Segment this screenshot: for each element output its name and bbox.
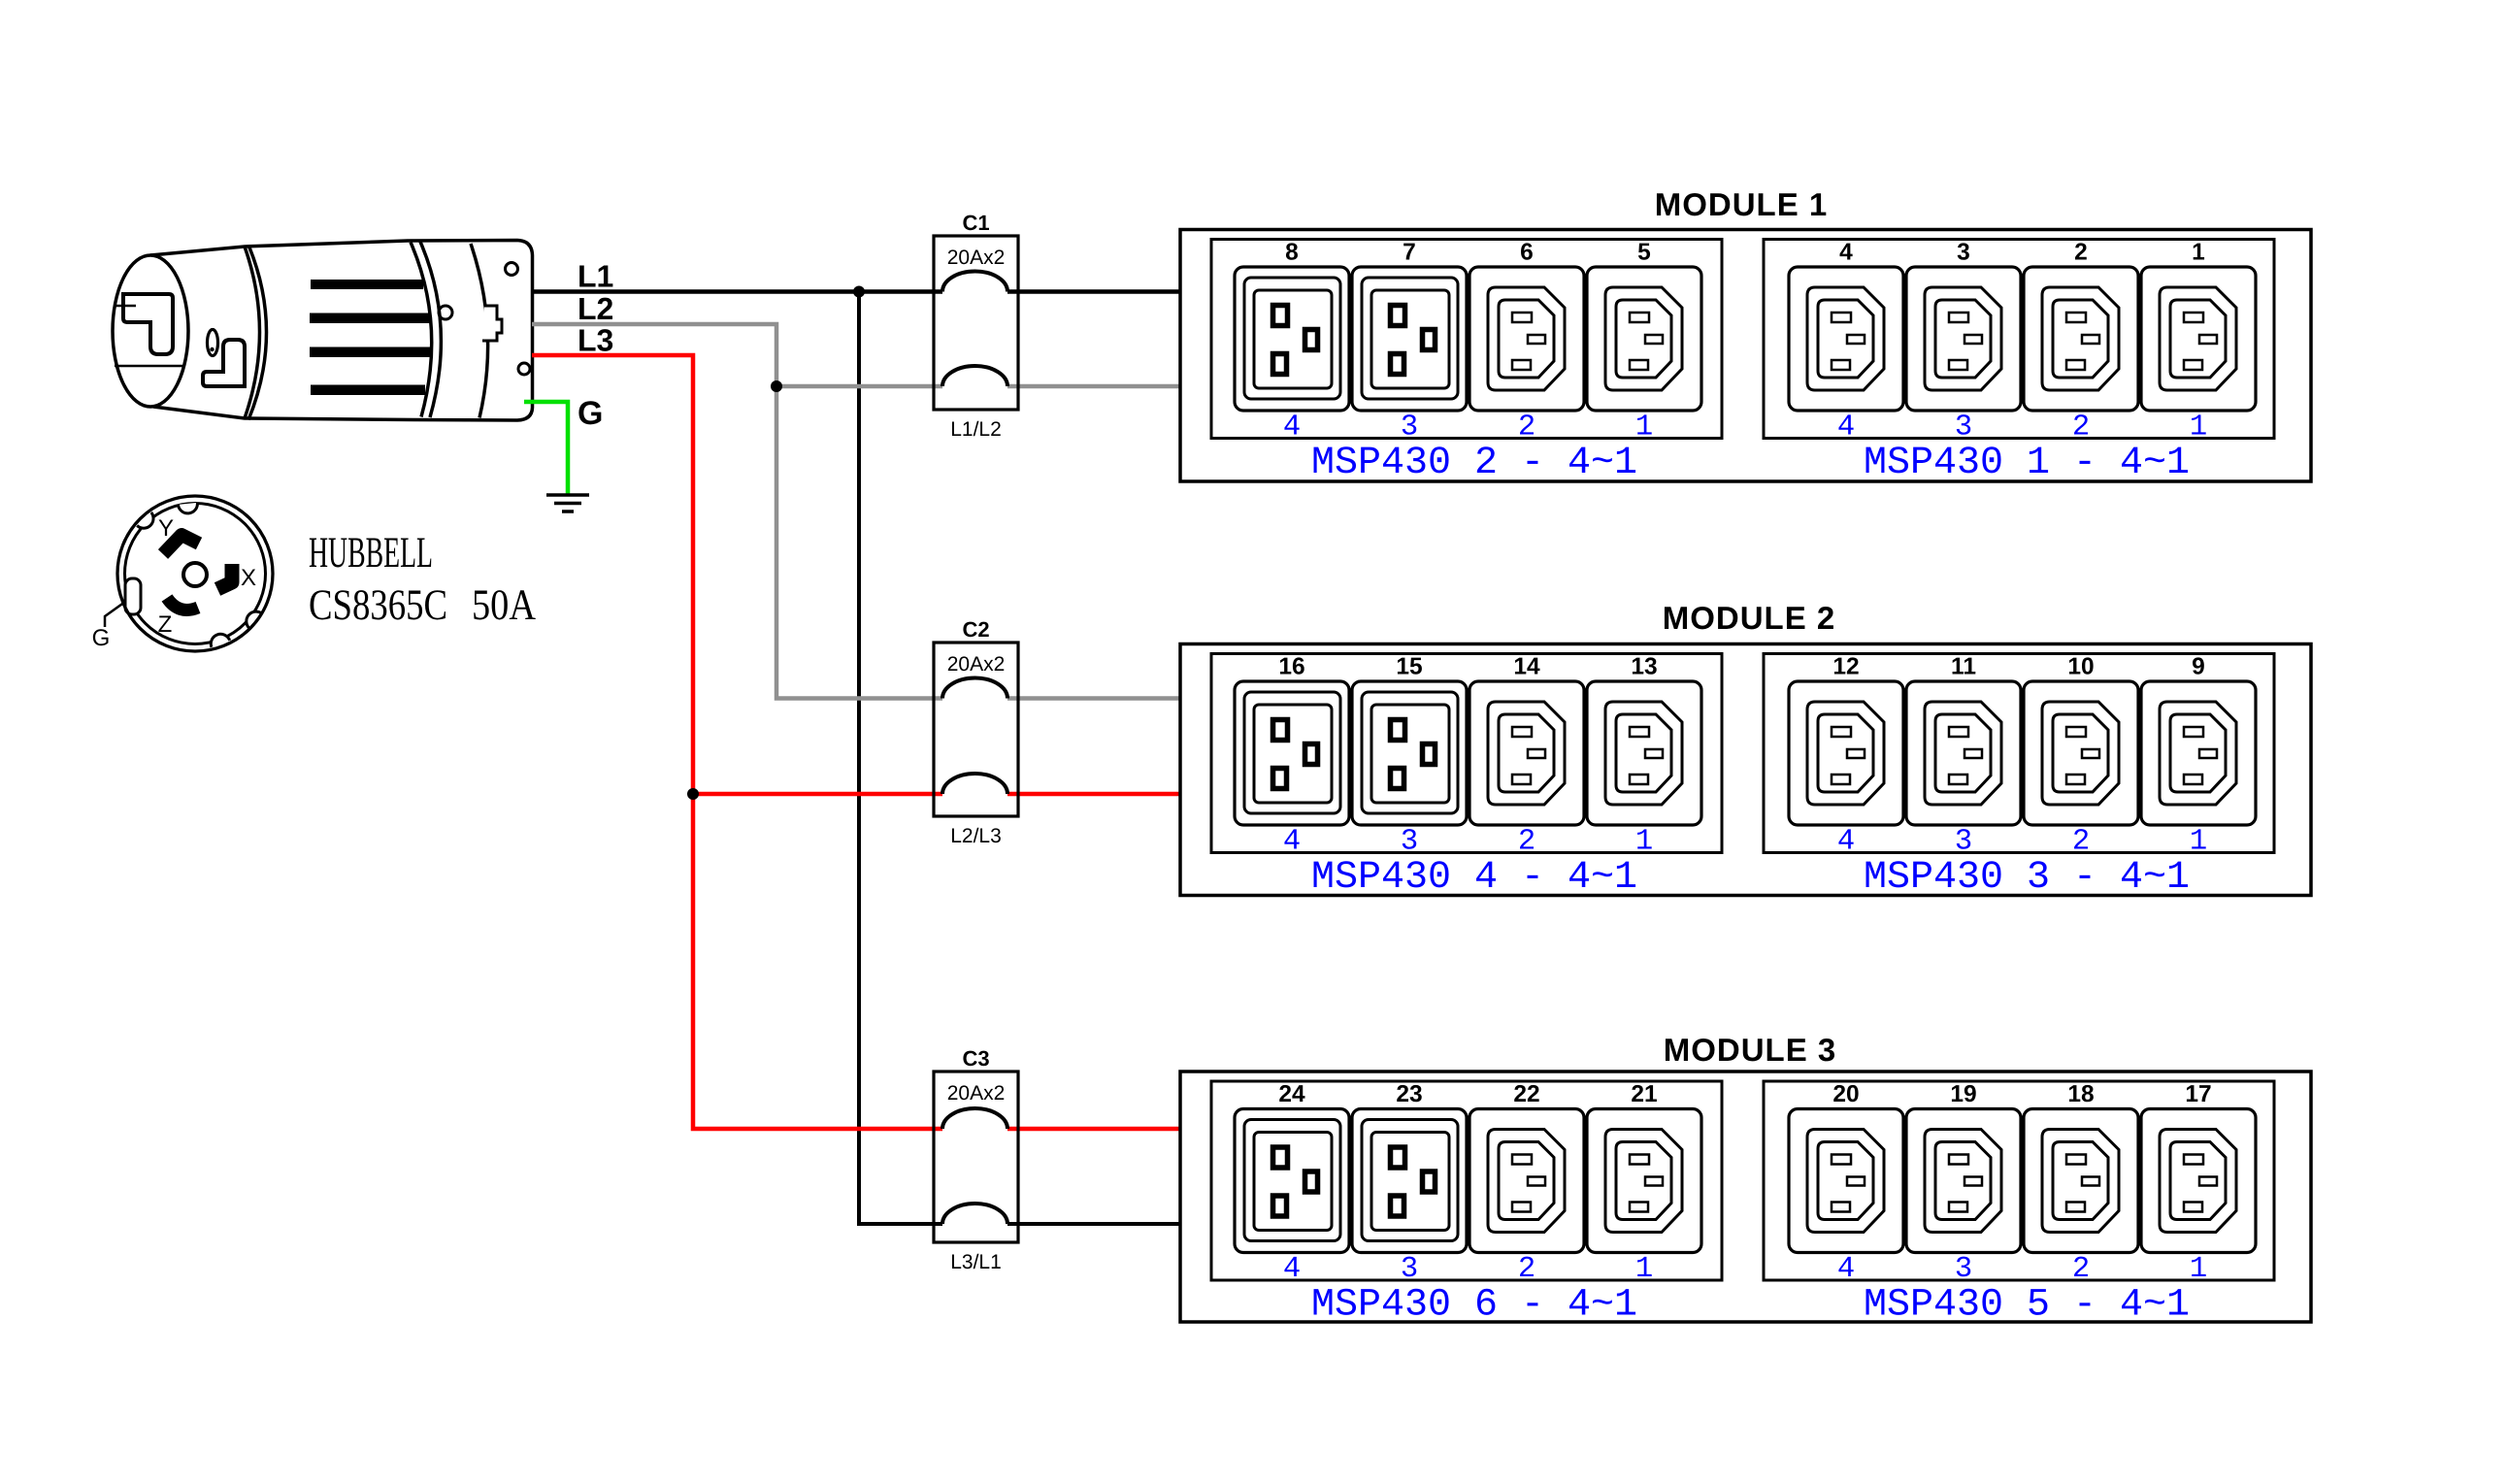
svg-text:4: 4 xyxy=(1283,412,1301,445)
svg-text:23: 23 xyxy=(1396,1081,1422,1107)
svg-text:20: 20 xyxy=(1832,1081,1859,1107)
wire L1 breaker C1 to module 1 xyxy=(1007,289,1180,294)
casing bump top-left xyxy=(137,512,153,528)
svg-text:1: 1 xyxy=(1635,826,1653,859)
svg-text:13: 13 xyxy=(1631,654,1657,680)
prong slot oval xyxy=(208,330,218,356)
svg-text:C2: C2 xyxy=(962,617,989,642)
svg-text:18: 18 xyxy=(2067,1081,2094,1107)
breaker C2 20Ax2 xyxy=(934,643,1018,816)
svg-text:4: 4 xyxy=(1837,412,1855,445)
svg-text:MODULE 1: MODULE 1 xyxy=(1655,186,1829,222)
svg-text:20Ax2: 20Ax2 xyxy=(947,247,1006,269)
module 1 right outlet group box xyxy=(1764,240,2274,439)
svg-text:15: 15 xyxy=(1396,654,1422,680)
svg-text:1: 1 xyxy=(1635,1253,1653,1286)
svg-text:L1: L1 xyxy=(578,259,613,294)
wire L1 (black) plug to breaker C1 xyxy=(532,289,942,294)
svg-text:9: 9 xyxy=(2192,654,2205,680)
svg-text:L3: L3 xyxy=(578,323,613,358)
svg-text:MSP430 2 - 4~1: MSP430 2 - 4~1 xyxy=(1311,442,1637,485)
breaker C3 pole 2 arc xyxy=(942,1204,1007,1224)
svg-text:CS8365C: CS8365C xyxy=(309,580,447,629)
svg-text:2: 2 xyxy=(2074,240,2088,266)
svg-text:3: 3 xyxy=(1401,1253,1418,1286)
wire G (green) plug to ground xyxy=(524,402,568,494)
svg-text:3: 3 xyxy=(1955,826,1972,859)
svg-text:20Ax2: 20Ax2 xyxy=(947,653,1006,676)
back cap boundary arc xyxy=(471,244,488,418)
casing bump bottom xyxy=(211,634,229,646)
svg-text:4: 4 xyxy=(1837,826,1855,859)
svg-text:1: 1 xyxy=(2190,826,2207,859)
svg-text:G: G xyxy=(578,395,603,432)
svg-text:19: 19 xyxy=(1950,1081,1976,1107)
svg-text:4: 4 xyxy=(1283,1253,1301,1286)
svg-text:MODULE 3: MODULE 3 xyxy=(1664,1032,1837,1068)
breaker C3 20Ax2 xyxy=(934,1072,1018,1242)
svg-text:3: 3 xyxy=(1955,412,1972,445)
svg-text:16: 16 xyxy=(1278,654,1304,680)
svg-text:MSP430 5 - 4~1: MSP430 5 - 4~1 xyxy=(1864,1284,2190,1328)
svg-text:20Ax2: 20Ax2 xyxy=(947,1082,1006,1105)
svg-text:L3/L1: L3/L1 xyxy=(950,1251,1002,1273)
plug face view CS8365C pin layout xyxy=(105,496,273,651)
svg-text:2: 2 xyxy=(1518,412,1535,445)
svg-text:1: 1 xyxy=(2190,412,2207,445)
wire L3 (red) plug to breaker C3 xyxy=(532,355,942,1129)
svg-text:3: 3 xyxy=(1401,412,1418,445)
svg-text:3: 3 xyxy=(1957,240,1970,266)
svg-text:4: 4 xyxy=(1837,1253,1855,1286)
svg-text:MSP430 3 - 4~1: MSP430 3 - 4~1 xyxy=(1864,856,2190,900)
svg-text:6: 6 xyxy=(1520,240,1534,266)
cap screw lower xyxy=(518,363,530,375)
svg-text:1: 1 xyxy=(1635,412,1653,445)
plug body outline top/bottom xyxy=(150,241,533,421)
svg-text:MSP430 4 - 4~1: MSP430 4 - 4~1 xyxy=(1311,856,1637,900)
svg-text:Z: Z xyxy=(158,611,173,638)
casing bump top xyxy=(179,503,198,513)
wire L2 breaker C1 to module 1 xyxy=(1007,384,1180,389)
center pilot circle xyxy=(183,563,207,586)
svg-text:2: 2 xyxy=(2072,1253,2090,1286)
svg-text:2: 2 xyxy=(2072,412,2090,445)
svg-text:24: 24 xyxy=(1278,1081,1305,1107)
svg-text:8: 8 xyxy=(1285,240,1299,266)
plug P1 Hubbell CS8365C twist-lock connector (side view) xyxy=(113,241,533,421)
svg-text:1: 1 xyxy=(2192,240,2205,266)
svg-text:2: 2 xyxy=(1518,826,1535,859)
svg-text:14: 14 xyxy=(1513,654,1540,680)
svg-text:50A: 50A xyxy=(472,580,536,629)
svg-text:22: 22 xyxy=(1513,1081,1539,1107)
prong slot L-shape upper (blade Y) xyxy=(123,294,173,354)
svg-text:X: X xyxy=(241,565,256,591)
svg-text:5: 5 xyxy=(1637,240,1651,266)
svg-text:21: 21 xyxy=(1631,1081,1657,1107)
wire L2 branch to breaker C1 xyxy=(776,384,942,389)
face mold line lower xyxy=(115,365,182,368)
wire L2 (gray) plug to breaker C2 xyxy=(532,324,942,699)
svg-text:HUBBELL: HUBBELL xyxy=(309,528,433,577)
rib section end arcs xyxy=(411,243,432,417)
breaker C2 pole 1 arc xyxy=(942,678,1007,699)
junction L1 bus tap xyxy=(853,286,865,298)
cord-grip rib bands xyxy=(310,280,430,395)
wire L3 breaker C3 to module 3 xyxy=(1007,1127,1180,1132)
svg-text:12: 12 xyxy=(1832,654,1859,680)
svg-text:G: G xyxy=(92,625,111,651)
blade Z (phase) xyxy=(167,598,198,610)
face inner circle xyxy=(125,504,266,644)
wire L1 vertical bus to breaker C3 xyxy=(859,292,942,1225)
module 2 left outlet group box xyxy=(1211,654,1722,853)
wire L2 breaker C2 to module 2 xyxy=(1007,696,1180,701)
svg-text:C1: C1 xyxy=(962,211,989,235)
svg-text:4: 4 xyxy=(1839,240,1853,266)
face mold line upper xyxy=(116,305,136,308)
ground symbol xyxy=(546,495,589,511)
breaker C1 pole 2 arc xyxy=(942,366,1007,386)
svg-text:17: 17 xyxy=(2185,1081,2211,1107)
blade Y (phase) xyxy=(163,535,199,554)
G pointer line xyxy=(105,602,125,627)
svg-text:L2: L2 xyxy=(578,291,613,326)
svg-text:MSP430 1 - 4~1: MSP430 1 - 4~1 xyxy=(1864,442,2190,485)
collar crescent arcs xyxy=(245,247,260,418)
svg-text:4: 4 xyxy=(1283,826,1301,859)
wire L3 branch to breaker C2 xyxy=(693,792,942,797)
cap keyway notch xyxy=(482,306,502,341)
face outer circle xyxy=(117,496,273,651)
svg-text:MSP430 6 - 4~1: MSP430 6 - 4~1 xyxy=(1311,1284,1637,1328)
breaker C1 20Ax2 xyxy=(934,236,1018,410)
svg-text:C3: C3 xyxy=(962,1046,989,1071)
svg-text:7: 7 xyxy=(1403,240,1416,266)
svg-text:10: 10 xyxy=(2067,654,2094,680)
module 3 left outlet group box xyxy=(1211,1081,1722,1280)
blade X (phase) xyxy=(217,564,232,589)
clamp ring screw xyxy=(439,306,452,319)
prong slot J-shape lower (blade X) xyxy=(203,340,245,386)
breaker C3 pole 1 arc xyxy=(942,1108,1007,1129)
cap screw upper xyxy=(506,263,518,276)
svg-text:3: 3 xyxy=(1401,826,1418,859)
svg-text:2: 2 xyxy=(2072,826,2090,859)
wire L3 breaker C2 to module 2 xyxy=(1007,792,1180,797)
svg-text:L1/L2: L1/L2 xyxy=(950,418,1002,441)
svg-text:MODULE 2: MODULE 2 xyxy=(1663,600,1836,636)
svg-text:2: 2 xyxy=(1518,1253,1535,1286)
svg-text:1: 1 xyxy=(2190,1253,2207,1286)
svg-text:3: 3 xyxy=(1955,1253,1972,1286)
junction L2 branch tap xyxy=(771,380,782,392)
svg-text:Y: Y xyxy=(158,515,174,542)
module 2 right outlet group box xyxy=(1764,654,2274,853)
svg-text:L2/L3: L2/L3 xyxy=(950,825,1002,847)
breaker C2 pole 2 arc xyxy=(942,774,1007,794)
plug front face ellipse xyxy=(113,255,188,407)
junction L3 branch tap xyxy=(687,788,699,800)
svg-text:11: 11 xyxy=(1951,654,1976,680)
casing bump right xyxy=(247,611,262,628)
breaker C1 pole 1 arc xyxy=(942,272,1007,292)
module 1 left outlet group box xyxy=(1211,240,1722,439)
wire L1 breaker C3 to module 3 xyxy=(1007,1222,1180,1226)
ground tab left xyxy=(125,578,141,614)
module 3 right outlet group box xyxy=(1764,1081,2274,1280)
